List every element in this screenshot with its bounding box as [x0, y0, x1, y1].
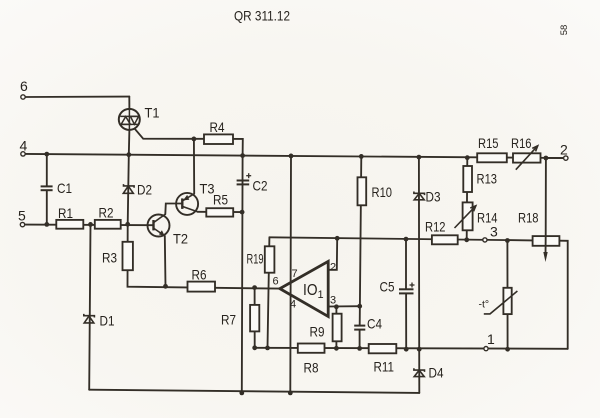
svg-text:-t°: -t° [479, 299, 490, 311]
wire D3 D4 column [418, 157, 420, 349]
terminal 5 [20, 222, 24, 226]
svg-text:R2: R2 [99, 205, 114, 221]
svg-text:6: 6 [273, 276, 279, 288]
thermistor body [503, 288, 511, 314]
wire R9 column [335, 307, 337, 349]
resistor R12 [432, 235, 458, 244]
resistor R8 [298, 344, 325, 353]
zener diode D2 [123, 184, 134, 193]
wire C1 column top [46, 154, 48, 186]
potentiometer R18 [533, 236, 560, 246]
svg-text:R7: R7 [221, 312, 236, 328]
svg-text:R6: R6 [192, 267, 207, 283]
resistor R3 [123, 242, 133, 270]
svg-text:D4: D4 [429, 365, 444, 381]
wire pin3 row [328, 305, 360, 307]
svg-text:D3: D3 [426, 189, 441, 205]
svg-text:R9: R9 [310, 324, 325, 340]
zener diode D3 [414, 192, 425, 200]
wire pin2 stub [328, 238, 337, 269]
zener diode D4 [414, 368, 425, 376]
svg-text:7: 7 [292, 268, 298, 280]
terminal 4 [21, 152, 25, 156]
svg-text:1: 1 [318, 289, 324, 301]
svg-text:R1: R1 [58, 205, 73, 221]
wire R7 column [254, 288, 256, 348]
svg-text:R18: R18 [518, 210, 539, 226]
variable resistor R16 arrow [516, 146, 538, 170]
wire R18 right corner [559, 241, 567, 349]
svg-text:R3: R3 [102, 250, 117, 266]
svg-text:R10: R10 [372, 184, 393, 200]
resistor R13 [463, 166, 472, 192]
resistor R7 [250, 305, 259, 332]
resistor R15 [477, 153, 507, 162]
svg-text:4: 4 [20, 138, 28, 154]
svg-text:C5: C5 [380, 279, 395, 295]
wire C5 column bottom [405, 294, 407, 350]
variable resistor R14 arrow [455, 206, 476, 228]
wire node6 row [25, 96, 129, 98]
resistor R11 [369, 344, 397, 353]
svg-text:IO: IO [303, 282, 318, 299]
terminal 2 [564, 156, 568, 160]
resistor R2 [95, 220, 121, 229]
svg-text:R19: R19 [247, 251, 264, 267]
wire T1 diagonal to R4 [135, 129, 243, 155]
svg-text:D2: D2 [137, 182, 152, 198]
wire C1 column bottom [46, 191, 48, 225]
svg-text:R4: R4 [210, 119, 225, 135]
wire bus4 [25, 154, 563, 158]
svg-text:58: 58 [559, 25, 570, 36]
wire R13 R14 column [466, 158, 469, 240]
resistor R16 (variable) [513, 153, 541, 162]
wire R10 C4 column top [360, 156, 362, 325]
wire bottom rail [89, 390, 419, 393]
wire D2 column [128, 155, 129, 225]
resistor R19 [265, 246, 275, 272]
wire node2 column [545, 158, 547, 236]
svg-text:3: 3 [490, 224, 498, 240]
svg-text:2: 2 [560, 142, 568, 158]
resistor R9 [333, 314, 342, 342]
transistor T2 [148, 215, 170, 237]
svg-text:C1: C1 [57, 180, 72, 196]
op-amp IO1 [280, 261, 328, 316]
svg-text:R14: R14 [477, 210, 498, 226]
wire T2 emitter column [164, 236, 167, 286]
svg-text:4: 4 [290, 299, 296, 311]
wire T1 to bus4 [128, 130, 131, 155]
svg-text:D1: D1 [100, 313, 115, 329]
wire D1 column [89, 224, 90, 389]
resistor R6 [188, 282, 216, 292]
svg-text:R12: R12 [425, 219, 446, 235]
wire C5 column top [405, 239, 407, 289]
resistor R10 [358, 177, 367, 205]
capacitor C5 (electrolytic) [399, 289, 414, 293]
svg-text:3: 3 [330, 295, 336, 307]
svg-text:R13: R13 [477, 171, 498, 187]
wire D4 to rail [418, 349, 420, 393]
wire terminal2 stub [546, 157, 564, 159]
wire R8 row [255, 348, 568, 349]
transistor T3 [176, 193, 198, 215]
resistor R1 [56, 220, 83, 229]
wire T1 internal [128, 110, 130, 130]
svg-text:C2: C2 [253, 178, 268, 194]
svg-text:T1: T1 [145, 105, 160, 121]
potentiometer R18 wiper arrow [545, 236, 547, 254]
svg-text:QR 311.12: QR 311.12 [234, 8, 290, 24]
svg-text:6: 6 [20, 78, 28, 94]
svg-text:R5: R5 [213, 192, 228, 208]
wire T3 collector column [193, 139, 195, 194]
terminal 6 [21, 95, 25, 99]
svg-text:R8: R8 [304, 360, 319, 376]
wire C2 column [241, 156, 244, 393]
svg-text:C4: C4 [367, 316, 382, 332]
wire R3 column [128, 224, 280, 288]
capacitor C1 [41, 186, 53, 190]
resistor R5 [206, 208, 233, 216]
svg-text:R11: R11 [374, 359, 395, 375]
node 3 [483, 238, 487, 242]
node 1 [484, 347, 488, 351]
thermistor diagonal [484, 291, 518, 314]
svg-text:2: 2 [330, 262, 336, 274]
svg-text:R15: R15 [478, 135, 499, 151]
svg-text:5: 5 [18, 208, 26, 224]
wire R19 column [268, 237, 270, 348]
wire T3 emitter to R5 [198, 211, 243, 213]
zener diode D1 [84, 314, 95, 323]
wire top bus [269, 237, 532, 240]
capacitor C2 (electrolytic) [237, 181, 250, 185]
wire row5 [25, 224, 154, 227]
wire C4 column bottom [359, 330, 361, 349]
svg-text:R16: R16 [511, 135, 532, 151]
wire thermistor column [506, 241, 508, 350]
wire T2 collector [165, 204, 182, 215]
wire supply column x291 [289, 156, 292, 393]
resistor R4 [204, 134, 233, 144]
capacitor C4 [354, 326, 365, 330]
resistor R14 (variable) [463, 202, 473, 230]
phototriac T1 [119, 109, 140, 130]
svg-text:T2: T2 [173, 231, 188, 247]
svg-text:1: 1 [487, 331, 495, 347]
